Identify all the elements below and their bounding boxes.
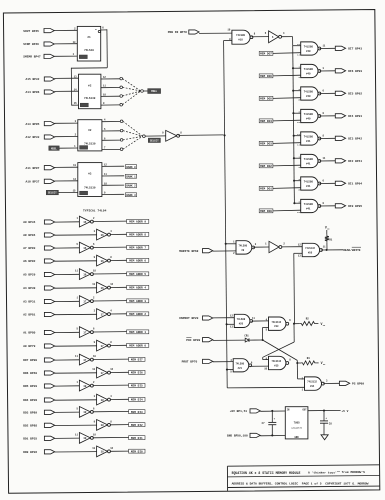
U35 label (271, 360, 281, 367)
node SELECT junction (143, 135, 146, 138)
svg-text:36: 36 (83, 221, 87, 224)
svg-text:MEM ADDR 9: MEM ADDR 9 (129, 221, 146, 224)
svg-text:from MORROW'S: from MORROW'S (342, 470, 366, 474)
svg-text:38: 38 (83, 385, 87, 388)
svg-text:OUT: OUT (303, 409, 308, 412)
svg-text:#41: #41 (306, 163, 311, 166)
pin 12 (110, 447, 113, 450)
wire buffer to MEM ADDR 9 (93, 220, 127, 222)
svg-text:37: 37 (101, 372, 105, 375)
inverter buffer U38 row DO2 BP88 (97, 420, 111, 431)
wire select bus top bend (224, 40, 232, 42)
pin 12 U20 (230, 314, 233, 317)
U3 output open node 1 (120, 129, 123, 132)
net label MEM ADDR 0 (127, 343, 149, 347)
dashed wire to SELECT node (123, 131, 143, 137)
wire MEM DO4 to gate (273, 119, 301, 122)
NAND U21 74LS00 (233, 359, 251, 372)
pin 13 gate 4 (297, 144, 300, 147)
pin 8 inverter (180, 131, 182, 134)
net label MEM ADDR 8 (127, 232, 149, 236)
inverter buffer U36 row A4 BP30 (97, 282, 111, 293)
U34 label (307, 381, 317, 388)
svg-text:37: 37 (83, 331, 87, 334)
wire A7 BP83 to buffer (55, 247, 80, 249)
wire gate to flag DI1 BP94 (319, 182, 335, 184)
dashed wire to select node (123, 79, 141, 91)
U20 label (237, 318, 246, 325)
inverter U16b (269, 31, 282, 43)
inverter buffer U38 row DO4 BP38 (97, 394, 111, 405)
gate label (304, 113, 314, 121)
wire MEM DO6 to gate (273, 74, 301, 77)
svg-text:74LS139: 74LS139 (84, 97, 96, 100)
wire DO2 BP88 to buffer (55, 424, 97, 426)
svg-text:74LS08: 74LS08 (304, 181, 314, 184)
U2 output pin 10 stub (101, 93, 120, 96)
svg-text:36: 36 (83, 247, 87, 250)
pin 10 (93, 433, 96, 436)
pin 8 (323, 135, 325, 138)
wire U1 out to U2 enable (71, 29, 107, 105)
svg-text:A6 BP82: A6 BP82 (23, 260, 35, 263)
wire A6 BP82 to buffer (55, 260, 97, 262)
pin 2 (93, 381, 95, 384)
input flag A5 BP29 (23, 272, 55, 276)
svg-text:MEM ADDR 5: MEM ADDR 5 (129, 273, 146, 276)
net label MSEL at U3 enable (49, 146, 59, 151)
wire U16c to U32 (282, 246, 303, 248)
pin 13 U32 (298, 254, 301, 257)
gate label (304, 158, 314, 166)
svg-text:A11 BP87: A11 BP87 (26, 167, 40, 170)
pin 12 (110, 368, 113, 371)
svg-text:MEM DI6: MEM DI6 (131, 372, 143, 375)
svg-text:DI2 BP41: DI2 BP41 (348, 160, 362, 163)
pin 2 U34 (302, 377, 304, 380)
wire buffer to MEM DI3 (93, 410, 129, 412)
input flag PROT BP70 (182, 359, 213, 363)
svg-text:MEM DO0: MEM DO0 (260, 210, 272, 213)
wire MEM DO7 to gate (273, 52, 301, 55)
input flag POC BP99 (186, 337, 213, 341)
svg-text:BANK 3: BANK 3 (126, 194, 136, 197)
output flag DI0 BP95 (335, 204, 362, 208)
IC U3 label (84, 129, 96, 145)
inverter buffer U38 row DO5 BP39 (79, 380, 93, 391)
inverter buffer U36 row A8 BP84 (97, 229, 111, 240)
wire gate to flag DI7 BP43 (319, 47, 335, 49)
svg-text:MSEL: MSEL (151, 90, 157, 93)
wire gate to flag DI5 BP92 (319, 92, 335, 94)
U3 output pin 6 stub (102, 137, 120, 140)
input flag SINP BP46 (23, 42, 54, 46)
node PSEL junction (141, 90, 144, 93)
pin 9 gate 7 (298, 200, 300, 203)
pin 5 (76, 328, 78, 331)
svg-text:#3: #3 (88, 173, 92, 176)
wire feedback to U33 pin5 (263, 327, 269, 340)
svg-text:MEM DI4: MEM DI4 (131, 399, 143, 402)
inverter buffer U37 row A3 BP31 (79, 296, 93, 307)
pin 10 U35 (264, 368, 267, 371)
U1 output bubble (98, 30, 100, 32)
AND gate U40 DI6 BP93 (301, 64, 321, 77)
svg-text:MWRITE BP68: MWRITE BP68 (179, 250, 198, 253)
svg-text:38: 38 (101, 451, 105, 454)
inverter buffer U38 row DO1 BP35 (79, 433, 93, 444)
pin 10 (93, 270, 96, 273)
net label MEM DO7 (259, 51, 273, 55)
svg-text:GND BP50,100: GND BP50,100 (227, 435, 248, 438)
svg-text:MEM ADDR 7: MEM ADDR 7 (129, 247, 146, 250)
dashed wire to SELECT node (123, 136, 143, 149)
pin 2 U1 (74, 27, 76, 30)
svg-text:SELECT: SELECT (150, 139, 159, 142)
net label MEM DO3 (259, 141, 273, 145)
svg-text:MEM ADDR 4: MEM ADDR 4 (129, 287, 146, 290)
R3 label (307, 357, 311, 360)
junction node 3 (292, 112, 294, 114)
wire select to U9 pin1 (226, 243, 236, 245)
wire DO-enable branch 6 (294, 180, 301, 182)
input flag A14 BP86 (26, 90, 55, 94)
pin 5 U1 (95, 28, 97, 31)
svg-text:36: 36 (101, 234, 105, 237)
net label SELECT (148, 138, 160, 142)
svg-text:74LS10: 74LS10 (84, 49, 94, 52)
svg-text:#40: #40 (306, 50, 311, 53)
pin 4 (110, 310, 112, 313)
R2 label (306, 318, 310, 321)
pin 2 gate 1 (298, 76, 300, 79)
svg-text:MEM DO6: MEM DO6 (260, 75, 272, 78)
U4 output pin 11 wire (102, 173, 124, 176)
pin 14 U4 (73, 178, 76, 181)
svg-text:37: 37 (83, 300, 87, 303)
resistor R1 (325, 230, 329, 250)
wire PSEL node to label (143, 90, 147, 92)
svg-text:TYPICAL 74L04: TYPICAL 74L04 (83, 210, 107, 213)
svg-text:A7 BP83: A7 BP83 (23, 247, 35, 250)
svg-text:A1 BP80: A1 BP80 (23, 332, 35, 335)
title text line 1 (232, 470, 366, 475)
junction node select/inverter (224, 134, 226, 136)
pin 5 gate 6 (298, 189, 300, 192)
svg-text:#55: #55 (308, 251, 313, 254)
svg-text:#41: #41 (306, 208, 311, 211)
title block frame (227, 465, 379, 491)
pin 12 (110, 283, 113, 286)
svg-text:A0 BP79: A0 BP79 (23, 345, 35, 348)
svg-text:SINP BP46: SINP BP46 (23, 43, 39, 46)
diode CR1 (245, 338, 249, 342)
svg-text:38: 38 (101, 399, 105, 402)
gate number 37 (83, 300, 87, 303)
net label MEM DO5 (259, 96, 273, 100)
pin 3 U34 (326, 380, 328, 383)
wire MEM DO2 to gate (273, 164, 301, 167)
input flag A3 BP31 (23, 299, 55, 303)
input flag UNPROT BP20 (179, 316, 213, 320)
svg-text:EQUATION 4K x 8 STATIC MEMORY: EQUATION 4K x 8 STATIC MEMORY MODULE (232, 471, 301, 475)
input flag DO2 BP88 (23, 423, 55, 427)
IC U3 74LS139 body (78, 120, 102, 151)
input flag A0 BP79 (23, 344, 55, 348)
gate number 37 (83, 359, 87, 362)
pin 10 U10 (227, 28, 230, 31)
resistor R2 (294, 322, 318, 326)
net label +5 V (341, 410, 348, 413)
wire enable bus segment (293, 136, 295, 159)
IC U4 74LS139 body (78, 163, 102, 197)
output flag DI5 BP92 (335, 91, 362, 95)
junction node select/U9 (225, 243, 227, 245)
svg-text:A12 BP33: A12 BP33 (26, 136, 40, 139)
wire U9 to inverter U16c (253, 246, 269, 248)
U21 label (235, 362, 244, 369)
pin 5 U16b (265, 32, 267, 35)
gate number 37 (101, 313, 105, 316)
input flag A1 BP80 (23, 330, 55, 334)
svg-text:38: 38 (83, 437, 87, 440)
wire DO4 BP38 to buffer (55, 399, 97, 401)
svg-text:74LS08: 74LS08 (304, 158, 314, 161)
input flag A2 BP81 (23, 312, 55, 316)
net label MEM DI1 (129, 436, 145, 440)
svg-text:DI4 BP91: DI4 BP91 (348, 115, 362, 118)
svg-text:BANK 1: BANK 1 (126, 175, 136, 178)
input flag A9 BP34 (23, 220, 55, 224)
pin 11 (323, 157, 326, 160)
power Vcc at R2 (320, 322, 326, 327)
input flag SMEMR BP47 (23, 54, 54, 58)
U10 label (236, 34, 246, 41)
U3 output pin 4 stub (102, 119, 120, 122)
svg-text:74LS08: 74LS08 (304, 203, 314, 206)
svg-text:MEM DI7: MEM DI7 (131, 359, 143, 362)
wire VR1 out (308, 409, 341, 411)
input flag GND BP50,100 (227, 433, 260, 437)
AND gate U41 DI1 BP94 (301, 177, 321, 190)
gate number 37 (83, 331, 87, 334)
wire PDBIN to U10 (199, 32, 232, 34)
svg-text:MEM DI2: MEM DI2 (131, 424, 143, 427)
svg-text:#21: #21 (238, 367, 243, 370)
svg-text:BANK 0: BANK 0 (126, 166, 136, 169)
U4 output pin 12 wire (102, 163, 124, 166)
pin 13 gate 0 (297, 54, 300, 57)
U2 output open node 2 (120, 95, 123, 98)
pin 13 U20 (230, 325, 233, 328)
pin 6 U21 (251, 361, 253, 364)
svg-text:A8 BP84: A8 BP84 (23, 234, 35, 237)
net label MEM ADDR 1 (127, 330, 149, 334)
wire gate to flag DI3 BP42 (319, 137, 335, 139)
pin 10 (93, 355, 96, 358)
wire buffer to MEM ADDR 0 (110, 344, 127, 346)
pin 9 (94, 341, 96, 344)
pin 10 gate 0 (297, 43, 300, 46)
svg-text:BANK 2: BANK 2 (126, 185, 136, 188)
svg-text:+5 V: +5 V (341, 410, 348, 413)
svg-text:MEM ADDR 3: MEM ADDR 3 (129, 300, 146, 303)
wire DO-enable branch 2 (293, 90, 301, 92)
svg-text:A15 BP32: A15 BP32 (26, 78, 40, 81)
svg-text:37: 37 (101, 345, 105, 348)
inverter buffer U37 row A1 BP80 (79, 327, 93, 338)
svg-text:#33: #33 (274, 325, 279, 328)
U2 output open node 0 (120, 77, 123, 80)
wire DO-enable branch 0 (293, 45, 301, 47)
svg-text:DO2 BP88: DO2 BP88 (23, 425, 37, 428)
svg-text:74LS08: 74LS08 (304, 46, 314, 49)
wire A11 BP87 to U4 (55, 166, 78, 168)
pin 1 U1 (73, 53, 76, 56)
wire buffer to MEM ADDR 6 (110, 259, 127, 261)
svg-text:R2: R2 (306, 318, 310, 321)
input flag DO4 BP38 (23, 398, 55, 402)
pin 2 (93, 217, 95, 220)
pin 1 (76, 297, 78, 300)
pin 3 (323, 67, 325, 70)
svg-text:74LS00: 74LS00 (238, 245, 247, 248)
wire SELECT to U4 pin15 (58, 191, 77, 193)
svg-text:74LS08: 74LS08 (304, 136, 314, 139)
svg-text:MEM DI1: MEM DI1 (131, 437, 143, 440)
pin 6 (93, 407, 95, 410)
pin 5 gate 2 (298, 99, 300, 102)
pin 11 (75, 433, 78, 436)
wire +8V to regulator (260, 410, 285, 412)
wire CR1 to node (249, 339, 263, 341)
gate number 36 (83, 221, 87, 224)
junction node select/U20 (226, 323, 228, 325)
svg-text:#40: #40 (306, 95, 311, 98)
wire enable bus segment (293, 158, 295, 181)
wire POC to CR1 (213, 339, 245, 341)
svg-text:A4 BP30: A4 BP30 (23, 287, 35, 290)
pin 11 (75, 355, 78, 358)
junction node R1 (326, 249, 328, 251)
svg-text:#35: #35 (274, 364, 279, 367)
output flag DI6 BP93 (335, 69, 362, 73)
wire buffer to MEM ADDR 5 (93, 273, 127, 275)
junction node latch Qbar (296, 362, 298, 364)
input flag A7 BP83 (23, 246, 55, 250)
net label MEM DI3 (129, 410, 145, 414)
svg-text:A 'thinker toys': A 'thinker toys' (308, 470, 337, 474)
wire U34 to flag PS (323, 382, 339, 384)
pin 1 (76, 217, 78, 220)
inverter buffer U38 row DO0 BP36 (97, 446, 111, 457)
svg-text:DO0 BP36: DO0 BP36 (23, 451, 37, 454)
gate number 38 (101, 451, 105, 454)
svg-text:74LS132: 74LS132 (307, 381, 317, 384)
wire MEM DO3 to gate (273, 142, 301, 145)
dashed wire to SELECT node (123, 121, 143, 136)
svg-text:1: 1 (73, 53, 76, 56)
wire buffer to MEM DI5 (93, 384, 129, 386)
svg-text:DO3 BP89: DO3 BP89 (23, 412, 37, 415)
gate number 36 (83, 273, 87, 276)
svg-text:36: 36 (101, 287, 105, 290)
U4 output pin 10 wire (102, 182, 124, 185)
dashed wire to select node (123, 91, 141, 96)
junction node POC/feedback (262, 339, 264, 341)
gate number 38 (83, 437, 87, 440)
net label MEM DO2 (259, 164, 273, 168)
net label MEM ADDR 4 (127, 285, 149, 289)
pin 12 gate 4 (297, 133, 300, 136)
pin 6 U16b (272, 36, 274, 39)
pin 4 U21 (230, 359, 232, 362)
AND gate U41 DI2 BP41 (301, 154, 321, 167)
svg-text:MEM DO4: MEM DO4 (260, 120, 272, 123)
NAND U10 74LS00 (232, 30, 253, 44)
wire enable bus segment (292, 68, 294, 91)
svg-text:#2: #2 (88, 85, 92, 88)
pin 4 (110, 230, 112, 233)
svg-text:37: 37 (83, 359, 87, 362)
pin 3 (94, 395, 96, 398)
pin 9 (94, 256, 96, 259)
wire select bus vertical (224, 41, 228, 388)
pin 6 (323, 180, 325, 183)
svg-text:+8V BP1,51: +8V BP1,51 (230, 410, 248, 413)
inverter U16c (269, 241, 282, 252)
wire A8 BP84 to buffer (55, 234, 97, 236)
wire MEM DO0 to gate (273, 209, 301, 212)
input flag DO1 BP35 (23, 436, 55, 440)
gate number 38 (83, 411, 87, 414)
pin 2 (93, 297, 95, 300)
net label MEM DI5 (129, 383, 145, 387)
svg-text:74LS00: 74LS00 (235, 362, 244, 365)
NAND U33 74LS132 latch set (269, 317, 289, 330)
net label MEM ADDR 6 (127, 258, 149, 262)
input flag A11 BP87 (26, 166, 55, 170)
junction node select/U21 (226, 369, 228, 371)
gate number 38 (83, 385, 87, 388)
svg-text:36: 36 (83, 273, 87, 276)
dashed wire to SELECT node (123, 136, 143, 140)
svg-text:MEM ADDR 0: MEM ADDR 0 (129, 345, 146, 348)
junction node 7 (293, 202, 295, 204)
wire enable bus segment (292, 91, 294, 114)
svg-text:#2: #2 (88, 129, 92, 132)
svg-text:74LS08: 74LS08 (304, 113, 314, 116)
input flag A12 BP33 (26, 135, 55, 139)
net label MEM DO6 (259, 74, 273, 78)
output flag DI7 BP43 (335, 46, 362, 50)
svg-text:38: 38 (83, 411, 87, 414)
svg-text:#1: #1 (87, 36, 91, 39)
wire buffer to MEM ADDR 7 (93, 246, 127, 248)
svg-text:74LS08: 74LS08 (304, 91, 314, 94)
input flag A4 BP30 (23, 286, 55, 290)
AND gate U41 DI0 BP95 (301, 199, 321, 212)
U2 output pin 12 stub (101, 76, 120, 79)
pin 4 gate 2 (298, 88, 300, 91)
pin 8 (323, 202, 325, 205)
svg-text:A3 BP31: A3 BP31 (23, 301, 35, 304)
wire DO6 BP40 to buffer (55, 372, 97, 374)
pin 13 (92, 447, 95, 450)
pin 4 gate 6 (298, 178, 300, 181)
C8 label (325, 417, 332, 426)
svg-text:74LS139: 74LS139 (84, 142, 96, 145)
